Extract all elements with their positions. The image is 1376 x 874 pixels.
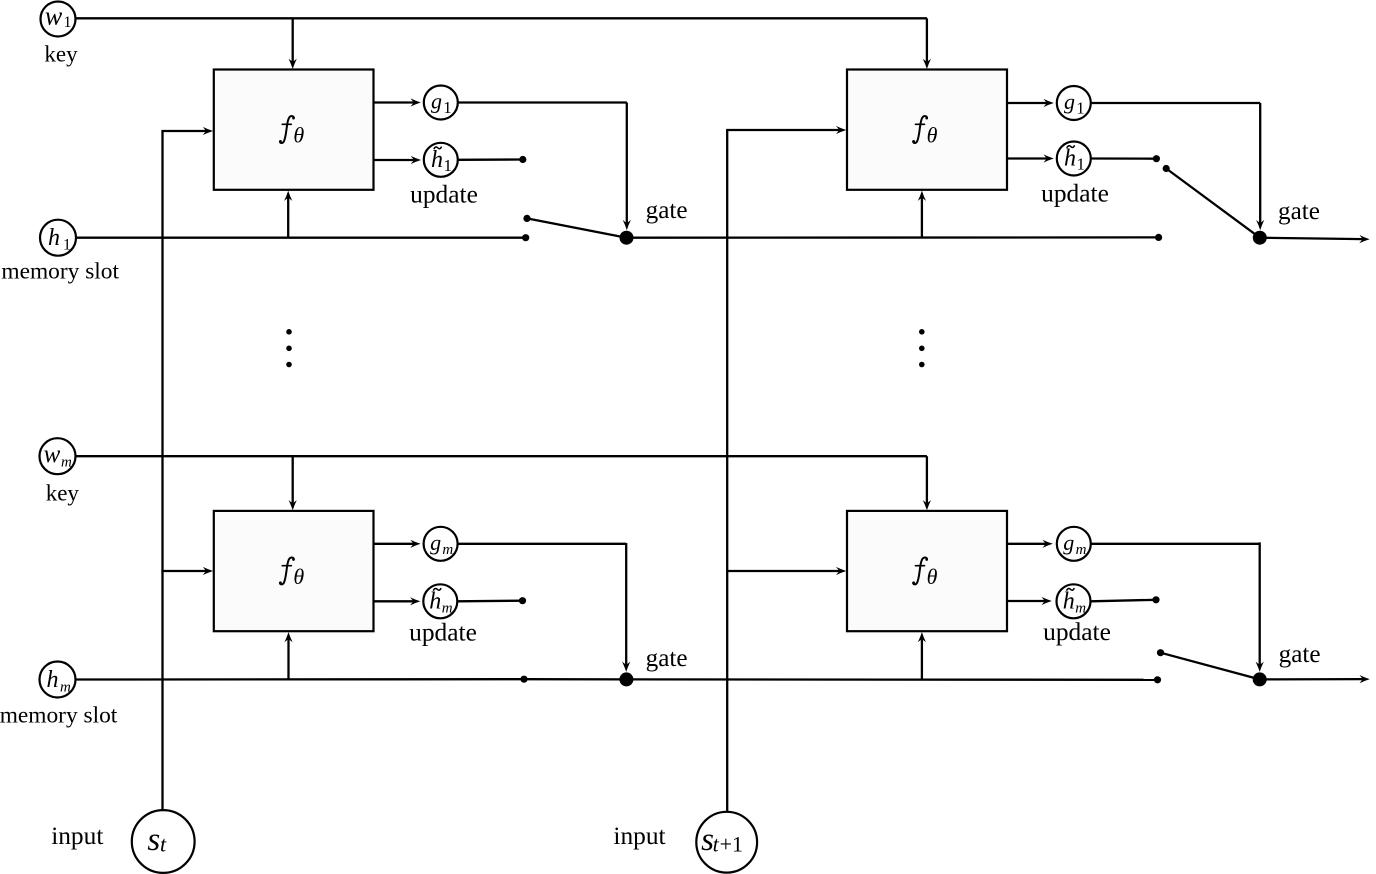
svg-text:gate: gate [1279, 641, 1321, 668]
gate4 memory terminal dot [1154, 676, 1161, 683]
svg-text:m: m [61, 454, 72, 470]
svg-text:g: g [431, 89, 442, 114]
wire memory h1 up-arrow into U1 bottom [287, 197, 289, 238]
wire U4 to gm arrow [1007, 543, 1046, 545]
wire memory h1 segment a [76, 237, 526, 239]
svg-text:update: update [1043, 618, 1111, 646]
node st circle [132, 810, 195, 873]
terminal dot htildem (bottom-left) [519, 597, 526, 604]
box U2 f_theta (top-right) [847, 70, 1007, 190]
svg-text:m: m [1075, 601, 1086, 617]
label U3 f_theta (bottom-left) f_theta [279, 557, 295, 584]
wire U3 to htildem arrow [374, 600, 414, 602]
gate4 open terminal dot [1157, 649, 1164, 656]
node g1 circle (left) [424, 86, 458, 120]
node gm circle (right) [1057, 527, 1091, 561]
gate2 open terminal dot [1163, 165, 1170, 172]
svg-text:g: g [1064, 89, 1075, 114]
svg-text:gate: gate [646, 645, 688, 672]
svg-text:update: update [409, 619, 477, 647]
gate1 memory terminal dot [522, 234, 529, 241]
label U2 f_theta (top-right) f_theta [912, 116, 928, 143]
node gm circle (left) [424, 527, 458, 561]
svg-text:m: m [60, 679, 71, 695]
wire key wm horizontal [58, 455, 927, 457]
svg-text:h: h [47, 667, 59, 693]
svg-text:1: 1 [63, 237, 71, 254]
wire U4 to htildem arrow [1007, 600, 1045, 602]
svg-text:update: update [410, 181, 478, 209]
wire input st+1 arrow into U2 left [726, 129, 840, 131]
svg-text:input: input [51, 822, 103, 850]
svg-text:h: h [431, 147, 443, 173]
svg-text:h: h [48, 225, 60, 251]
node w1 circle [41, 2, 76, 37]
svg-text:input: input [613, 822, 665, 850]
terminal dot htildem (bottom-right) [1152, 596, 1159, 603]
wire input st vertical [161, 131, 163, 810]
wire input st arrow into U1 left [161, 130, 206, 132]
gate3 lever (closed on memory) [524, 678, 626, 681]
svg-text:θ: θ [293, 564, 304, 589]
wire memory up-arrow into U4 bottom [921, 639, 923, 680]
label U1 f_theta (top-left) f_theta [279, 116, 295, 143]
gate1 lever [527, 218, 627, 237]
node h1 circle [40, 220, 76, 256]
wire htilde1 stub (right) [1091, 157, 1157, 159]
box U3 f_theta (bottom-left) [214, 511, 374, 631]
svg-text:θ: θ [293, 123, 304, 148]
svg-text:key: key [46, 481, 80, 506]
svg-text:1: 1 [64, 14, 72, 31]
svg-text:w: w [44, 441, 61, 468]
wire g1 to gate1 elbow [458, 101, 627, 103]
svg-text:gate: gate [1278, 198, 1320, 225]
node hm circle [40, 662, 76, 698]
svg-text:1: 1 [1076, 99, 1085, 118]
wire input st+1 vertical [726, 130, 728, 812]
gate2 memory terminal dot [1155, 234, 1162, 241]
svg-text:m: m [442, 601, 453, 617]
wire memory h1 output arrow [1260, 238, 1363, 239]
node htilde1 circle (right) [1057, 142, 1091, 176]
wire memory h1 segment b [627, 236, 1159, 239]
gate4 output node dot [1253, 672, 1267, 686]
wire gm to gate3 elbow [458, 543, 627, 545]
node htildem circle (left) [423, 584, 457, 618]
terminal dot htilde1 (top-right) [1153, 155, 1160, 162]
gate2 lever (selecting update) [1166, 169, 1260, 238]
node htildem circle (right) [1057, 584, 1091, 618]
wire htildem stub (right) [1091, 600, 1157, 602]
node wm circle [40, 438, 76, 474]
svg-text:1: 1 [444, 156, 453, 175]
svg-text:g: g [430, 530, 441, 555]
wire U1 to htilde1 arrow [374, 159, 415, 161]
svg-text:memory slot: memory slot [1, 258, 119, 284]
wire key wm corner down into U4 [926, 456, 928, 504]
wire memory hm up-arrow into U3 bottom [287, 639, 289, 680]
gate3 output node dot [619, 672, 633, 686]
wire input st branch arrow into U3 left [161, 570, 206, 572]
svg-text:1: 1 [443, 98, 452, 117]
wire U3 to gm arrow [374, 543, 415, 545]
terminal dot htilde1 (top-left) [519, 156, 526, 163]
wire htilde1 stub [458, 158, 523, 161]
svg-text:θ: θ [927, 123, 938, 148]
svg-text:m: m [442, 542, 453, 558]
svg-text:m: m [1076, 542, 1087, 558]
svg-text:gate: gate [646, 197, 688, 224]
node g1 circle (right) [1057, 86, 1091, 120]
svg-text:update: update [1041, 180, 1109, 208]
wire key w1 corner down into U2 [926, 18, 928, 62]
svg-text:1: 1 [1077, 155, 1086, 174]
svg-text:memory slot: memory slot [0, 702, 118, 728]
svg-text:t: t [160, 831, 167, 856]
ellipsis dots (right) [919, 329, 925, 335]
svg-text:w: w [45, 1, 63, 30]
svg-text:g: g [1063, 530, 1074, 555]
svg-text:t: t [713, 831, 720, 856]
svg-text:θ: θ [927, 564, 938, 589]
label U4 f_theta (bottom-right) f_theta [912, 557, 928, 584]
wire U2 to g1 arrow [1007, 102, 1047, 104]
svg-text:h: h [1063, 589, 1075, 615]
wire g1 to gate2 elbow [1091, 102, 1260, 104]
wire htildem stub (left) [457, 600, 522, 603]
gate1 output node dot [620, 231, 634, 245]
svg-text:s: s [147, 822, 160, 858]
gate3 memory terminal dot [520, 676, 527, 683]
svg-text:key: key [44, 42, 78, 67]
wire U2 to htilde1 arrow [1007, 157, 1047, 159]
wire key wm branch down into U3 [292, 456, 294, 504]
svg-text:h: h [1064, 146, 1076, 172]
wire memory up-arrow into U2 bottom [921, 197, 923, 238]
gate2 output node dot [1253, 231, 1267, 245]
gate4 lever (partially open) [1161, 653, 1260, 680]
wire U1 to g1 arrow [374, 101, 415, 103]
svg-text:+1: +1 [720, 831, 743, 856]
wire input st+1 branch arrow into U4 left [726, 570, 840, 572]
wire memory hm segment a [76, 678, 525, 681]
wire memory hm segment b [626, 678, 1157, 681]
node st+1 circle [696, 812, 757, 873]
wire key w1 horizontal [58, 17, 927, 19]
wire gm to gate4 elbow [1091, 543, 1260, 545]
gate1 open terminal dot [523, 215, 530, 222]
svg-text:h: h [429, 589, 441, 615]
ellipsis dots (left) [286, 329, 292, 335]
wire key w1 branch down into U1 [292, 18, 294, 62]
node htilde1 circle (left) [424, 143, 458, 177]
box U4 f_theta (bottom-right) [847, 511, 1007, 631]
wire memory hm output arrow [1260, 678, 1364, 681]
box U1 f_theta (top-left) [214, 70, 374, 190]
